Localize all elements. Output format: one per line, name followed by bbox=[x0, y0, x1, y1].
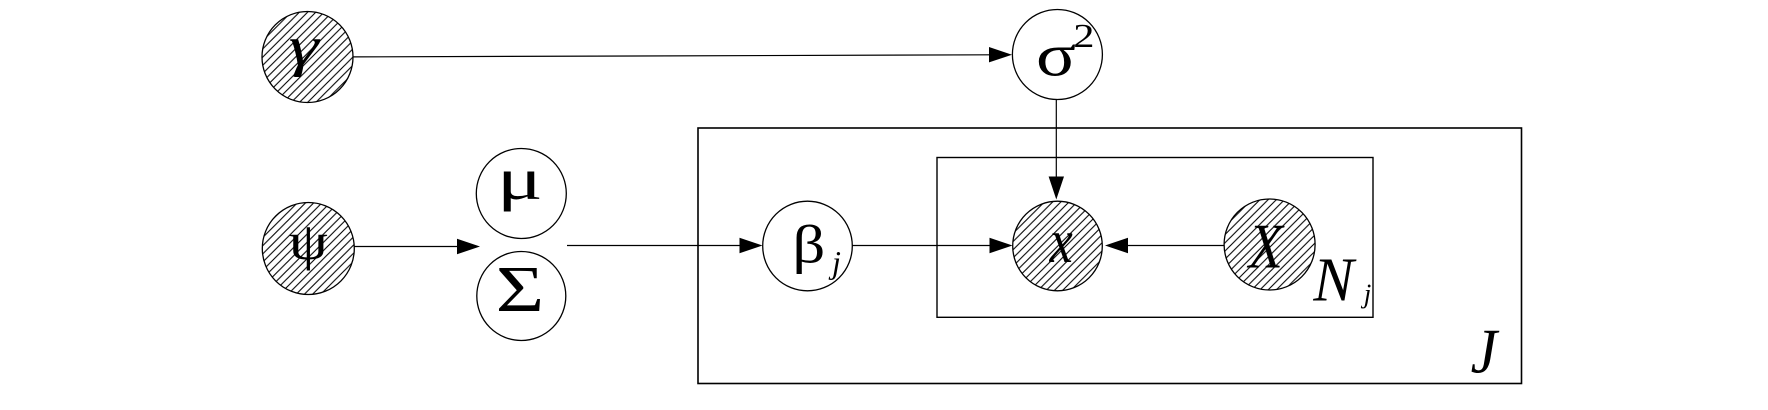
svg-text:σ: σ bbox=[1036, 22, 1076, 89]
svg-text:β: β bbox=[792, 214, 825, 274]
plate N_j (inner plate rectangle) bbox=[937, 158, 1373, 318]
svg-text:ψ: ψ bbox=[289, 211, 328, 270]
svg-text:J: J bbox=[1471, 317, 1500, 387]
node x (observed/shaded circle) bbox=[1013, 201, 1103, 291]
svg-text:x: x bbox=[1049, 208, 1073, 276]
svg-text:Σ: Σ bbox=[496, 253, 544, 326]
svg-text:X: X bbox=[1247, 211, 1285, 282]
node psi (observed/shaded circle) bbox=[262, 203, 354, 295]
svg-text:j: j bbox=[1361, 279, 1372, 309]
svg-text:2: 2 bbox=[1073, 18, 1094, 55]
node sigma2 (latent circle) bbox=[1012, 10, 1102, 100]
label J (outer plate index) bbox=[1471, 317, 1500, 387]
node beta_j (latent circle) bbox=[763, 201, 853, 291]
svg-text:μ: μ bbox=[497, 147, 543, 212]
node gamma (observed/shaded circle) bbox=[262, 12, 353, 103]
wire X to x (leftward, with arrowhead) bbox=[1105, 238, 1224, 253]
node mu (latent circle) bbox=[476, 147, 566, 239]
wire beta_j to x (with arrowhead) bbox=[853, 238, 1013, 253]
wire gamma to sigma2 (with arrowhead) bbox=[353, 47, 1012, 62]
label N_j (inner plate index) bbox=[1312, 245, 1371, 314]
wire sigma2 to x (vertical, with arrowhead) bbox=[1049, 100, 1064, 200]
wire psi to mu-Sigma pair (with arrowhead) bbox=[355, 239, 481, 254]
plate J (outer plate rectangle) bbox=[698, 128, 1522, 384]
node Sigma (latent circle) bbox=[477, 252, 566, 341]
node X (observed/shaded circle) bbox=[1224, 199, 1315, 290]
svg-text:γ: γ bbox=[289, 16, 321, 78]
svg-text:N: N bbox=[1312, 245, 1357, 314]
wire mu-Sigma pair to beta_j (with arrowhead) bbox=[567, 238, 763, 253]
